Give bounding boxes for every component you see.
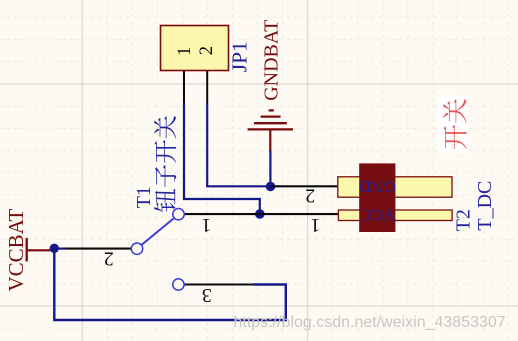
wire GNDBAT stem to node B — [269, 151, 271, 187]
T1 comment label (toggle switch) — [154, 116, 176, 212]
svg-text:VCC: VCC — [360, 206, 395, 225]
svg-text:2: 2 — [197, 46, 217, 55]
switch T1 terminal circle pin 3 — [173, 279, 184, 290]
wire JP1 pin1 to node A — [184, 103, 260, 214]
connector JP1 body — [161, 26, 229, 71]
svg-text:VCCBAT: VCCBAT — [4, 208, 28, 291]
svg-text:2: 2 — [305, 185, 315, 207]
wire node A to T2 pin 1 — [260, 213, 339, 215]
svg-text:https://blog.csdn.net/weixin_4: https://blog.csdn.net/weixin_43853307 — [234, 314, 506, 331]
switch T1 terminal circle pin 2 — [131, 243, 142, 254]
switch T1 terminal circle pin 1 — [173, 209, 184, 220]
T2 pin 2 (GND) line — [271, 185, 339, 187]
svg-text:1: 1 — [175, 47, 195, 56]
wire node C to T1 pin 3 (bottom loop) — [54, 249, 285, 320]
switch T1 pin 3 line — [184, 283, 253, 285]
svg-text:T2: T2 — [452, 209, 474, 231]
switch T1 pin 2 line — [66, 248, 132, 250]
junction node A — [255, 209, 265, 219]
T2 attribute label background — [438, 96, 469, 153]
power port GNDBAT symbol — [248, 110, 293, 151]
T2 center blade (bottom yellow bar) — [338, 210, 452, 221]
junction node B — [266, 182, 276, 192]
power port VCCBAT symbol — [27, 238, 51, 262]
svg-text:3: 3 — [202, 284, 212, 306]
svg-text:GND: GND — [359, 177, 396, 196]
wire JP1 pin2 to node B — [207, 103, 270, 186]
svg-text:2: 2 — [104, 247, 114, 269]
switch T1 pin 1 line — [184, 213, 260, 215]
T2 attribute label (switch) — [443, 99, 467, 149]
svg-text:1: 1 — [201, 214, 211, 236]
JP1 pin 1 — [175, 47, 195, 104]
wire node C stub — [50, 248, 66, 250]
svg-text:JP1: JP1 — [228, 41, 252, 72]
JP1 pin 2 — [197, 46, 217, 103]
junction node C (VCCBAT) — [50, 244, 59, 253]
svg-text:1: 1 — [310, 214, 320, 236]
svg-text:GNDBAT: GNDBAT — [261, 20, 283, 101]
svg-text:T1: T1 — [133, 186, 155, 208]
switch T1 lever — [142, 218, 174, 244]
T2 body — [360, 164, 395, 232]
svg-text:T_DC: T_DC — [474, 181, 496, 231]
T2 sleeve blade (top yellow bar) — [338, 177, 452, 197]
